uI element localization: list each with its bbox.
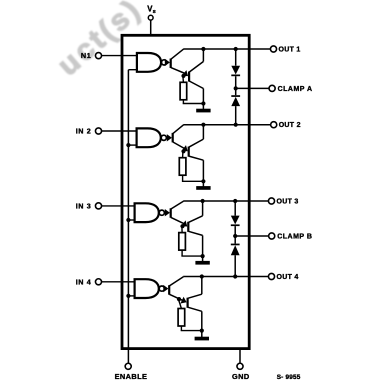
wire Q1a emitter bbox=[171, 68, 185, 74]
wire D3 to CLAMP B node bbox=[234, 226, 236, 244]
resistor R4 bbox=[178, 309, 185, 327]
junction Q3a emitter / R3 bbox=[180, 224, 184, 228]
svg-text:OUT 4: OUT 4 bbox=[277, 274, 299, 281]
wire input 4 to gate bbox=[102, 281, 135, 283]
transistor Q2a base arrow bbox=[167, 134, 172, 141]
svg-text:GND: GND bbox=[232, 372, 250, 381]
transistor Q4b base arrow bbox=[180, 297, 188, 306]
junction enable rail / gate 2 bbox=[126, 143, 130, 147]
wire R2 bottom bbox=[182, 175, 184, 181]
wire Q3b emitter bbox=[188, 231, 202, 235]
junction Q4a emitter / R4 bbox=[177, 297, 181, 301]
supply terminal Vs label bbox=[147, 4, 155, 15]
terminal OUT 3 bbox=[268, 198, 274, 204]
svg-text:N1: N1 bbox=[81, 51, 91, 60]
wire OUT 3 line bbox=[183, 200, 268, 202]
resistor R1 bbox=[180, 82, 187, 100]
wire Q2a collector bbox=[173, 125, 184, 134]
transistor Q4a base arrow bbox=[163, 285, 168, 292]
gate G4 output bubble bbox=[159, 286, 164, 291]
ground symbol channel 1 bbox=[196, 104, 210, 113]
wire Q4a collector bbox=[169, 277, 183, 286]
wire enable stub gate 2 bbox=[128, 144, 136, 146]
wire bubble to Q4a base bbox=[163, 288, 166, 290]
wire input 3 to gate bbox=[102, 205, 135, 207]
transistor Q3b base arrow bbox=[181, 220, 190, 229]
wire Q2b collector bbox=[189, 139, 204, 147]
transistor Q3a base bar bbox=[170, 208, 172, 218]
IC body box bbox=[122, 35, 249, 348]
wire enable stub gate 3 bbox=[128, 219, 134, 221]
gate G1 output bubble bbox=[162, 60, 167, 65]
junction Q1b collector / OUT 1 bbox=[201, 47, 205, 51]
transistor Q3b base bar bbox=[187, 222, 189, 232]
junction OUT 1 / clamp chain bbox=[234, 47, 238, 51]
svg-text:ENABLE: ENABLE bbox=[115, 372, 148, 381]
NAND gate G2 bbox=[137, 128, 161, 147]
junction Q2a emitter / R2 bbox=[181, 149, 185, 153]
wire R3 top bbox=[181, 226, 183, 232]
transistor Q2a base bar bbox=[172, 133, 174, 143]
junction OUT 2 / clamp chain bbox=[234, 123, 238, 127]
wire Q1b emitter bbox=[189, 81, 203, 89]
ground symbol channel 4 bbox=[195, 331, 209, 341]
junction emitter / ground 4 bbox=[200, 329, 204, 333]
junction CLAMP B bbox=[233, 234, 237, 238]
wire enable stub gate 4 bbox=[128, 295, 134, 297]
transistor Q1b base arrow bbox=[182, 70, 191, 79]
terminal OUT 1 bbox=[270, 46, 276, 52]
NAND gate G1 bbox=[137, 53, 161, 72]
wire bubble to Q1a base bbox=[165, 61, 167, 63]
svg-text:S- 9955: S- 9955 bbox=[277, 374, 301, 381]
wire input 2 to gate bbox=[102, 130, 137, 132]
transistor Q2b base bar bbox=[188, 147, 190, 157]
junction Q4b collector / OUT 4 bbox=[200, 274, 204, 278]
wire Q2a emitter bbox=[173, 142, 185, 149]
wire input 1 to gate bbox=[102, 55, 137, 57]
wire bubble to Q3a base bbox=[164, 212, 166, 214]
wire bubble to Q2a base bbox=[166, 137, 168, 139]
svg-text:s: s bbox=[153, 9, 156, 15]
input terminal IN 4 bbox=[95, 279, 101, 285]
terminal circle Vs bbox=[148, 15, 153, 20]
wire Q2b emitter bbox=[189, 156, 204, 160]
transistor Q1b base bar bbox=[188, 72, 190, 82]
svg-text:OUT 1: OUT 1 bbox=[279, 47, 301, 54]
svg-text:IN 2: IN 2 bbox=[76, 127, 92, 136]
svg-text:OUT 3: OUT 3 bbox=[277, 199, 299, 206]
svg-text:CLAMP B: CLAMP B bbox=[277, 234, 312, 241]
transistor Q1a base arrow bbox=[165, 59, 170, 66]
wire OUT1 to diode D1 bbox=[235, 49, 237, 66]
wire Q3a collector bbox=[171, 201, 184, 209]
wire OUT 1 line bbox=[183, 48, 270, 50]
terminal GND bbox=[237, 363, 243, 369]
diode D3 (OUT3 to CLAMP B) bbox=[231, 216, 240, 226]
NAND gate G3 bbox=[135, 203, 159, 222]
svg-text:OUT 2: OUT 2 bbox=[279, 122, 301, 129]
wire enable stub gate 1 bbox=[128, 69, 137, 71]
watermark bbox=[51, 0, 148, 82]
wire Q4b collector bbox=[188, 294, 202, 298]
svg-text:IN 3: IN 3 bbox=[76, 202, 92, 211]
junction enable rail / gate 3 bbox=[126, 218, 130, 222]
wire Q3b collector bbox=[188, 216, 202, 223]
wire CLAMP A to terminal bbox=[236, 87, 269, 89]
wire R4 top bbox=[178, 299, 181, 308]
input terminal IN 3 bbox=[95, 203, 101, 209]
diode D1 (OUT1 to CLAMP A) bbox=[231, 66, 240, 77]
wire Vs to box bbox=[150, 20, 152, 35]
ENABLE rail wire bbox=[127, 70, 129, 364]
wire OUT 2 line bbox=[183, 124, 271, 126]
wire CLAMP B to terminal bbox=[235, 235, 269, 237]
wire R4 bottom bbox=[180, 326, 182, 331]
wire Q1a collector bbox=[171, 49, 184, 59]
junction CLAMP A bbox=[234, 86, 238, 90]
gate G3 output bubble bbox=[159, 210, 164, 215]
wire R1 top bbox=[182, 76, 185, 82]
diode D2 (OUT2 to CLAMP A) bbox=[231, 95, 240, 106]
junction OUT 3 / clamp chain bbox=[233, 199, 237, 203]
transistor Q3a base arrow bbox=[165, 209, 170, 216]
wire R2 top bbox=[182, 151, 184, 157]
wire R3 bottom bbox=[181, 250, 183, 256]
junction enable rail / gate 4 bbox=[126, 294, 130, 298]
terminal OUT 4 bbox=[268, 273, 274, 279]
junction OUT 4 / clamp chain bbox=[233, 274, 237, 278]
wire D4 to OUT4 bbox=[234, 255, 236, 276]
terminal ENABLE bbox=[125, 363, 131, 369]
wire OUT 4 line bbox=[183, 276, 268, 278]
wire D2 to OUT2 bbox=[235, 106, 237, 125]
junction Q2b collector / OUT 2 bbox=[201, 123, 205, 127]
wire Q1b collector bbox=[189, 62, 203, 73]
transistor Q2b base arrow bbox=[181, 145, 190, 154]
transistor Q1a base bar bbox=[170, 59, 172, 69]
resistor R2 bbox=[179, 158, 186, 176]
wire GND lead bbox=[239, 349, 241, 364]
ground symbol channel 2 bbox=[196, 181, 210, 190]
wire D1 to CLAMP A node bbox=[235, 76, 237, 95]
input terminal N1 bbox=[95, 53, 101, 59]
terminal OUT 2 bbox=[271, 122, 277, 128]
wire Q3a emitter bbox=[171, 217, 184, 223]
NAND gate G4 bbox=[135, 279, 159, 298]
diode D4 (OUT4 to CLAMP B) bbox=[231, 244, 240, 256]
gate G2 output bubble bbox=[161, 135, 166, 140]
terminal CLAMP A bbox=[269, 85, 275, 91]
junction Q3b collector / OUT 3 bbox=[201, 199, 205, 203]
junction Q1a emitter / R1 bbox=[181, 74, 185, 78]
wire R1 bottom bbox=[182, 100, 184, 104]
wire OUT3 to diode D3 bbox=[234, 201, 236, 216]
junction emitter / ground 2 bbox=[201, 179, 205, 183]
junction emitter / ground 3 bbox=[201, 254, 205, 258]
transistor Q4a base bar bbox=[168, 285, 170, 295]
svg-text:IN 4: IN 4 bbox=[76, 277, 92, 286]
ground symbol channel 3 bbox=[195, 256, 209, 265]
wire Q4a emitter bbox=[169, 294, 183, 300]
resistor R3 bbox=[179, 233, 186, 251]
wire Q4b emitter bbox=[188, 307, 202, 311]
junction emitter / ground 1 bbox=[201, 101, 205, 105]
terminal CLAMP B bbox=[269, 233, 275, 239]
input terminal IN 2 bbox=[95, 128, 101, 134]
transistor Q4b base bar bbox=[187, 298, 189, 308]
svg-text:CLAMP A: CLAMP A bbox=[278, 86, 313, 93]
